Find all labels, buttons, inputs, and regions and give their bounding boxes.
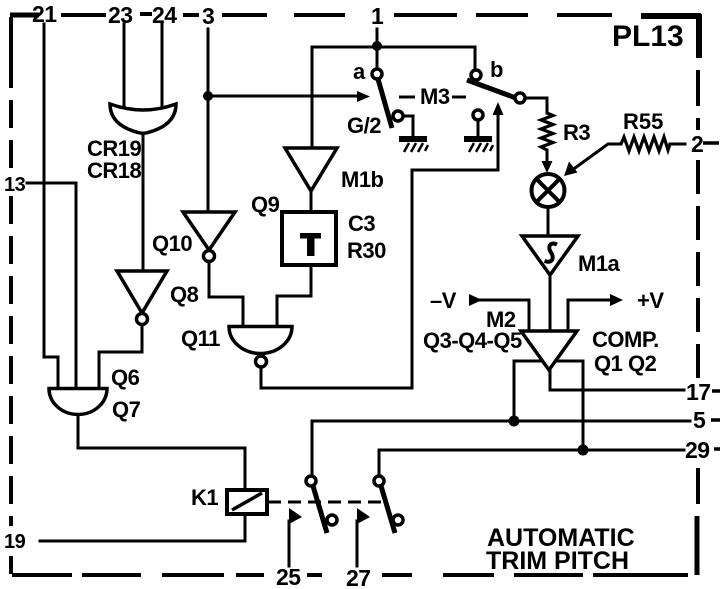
svg-text:Q8: Q8 <box>170 282 199 307</box>
svg-text:K1: K1 <box>191 485 218 510</box>
comparator M2 <box>521 331 577 370</box>
svg-text:Q9: Q9 <box>251 192 280 217</box>
wire node 3 to switch a arm <box>208 95 358 98</box>
svg-text:21: 21 <box>32 1 57 27</box>
or-gate CR19/CR18 <box>110 104 176 133</box>
svg-text:Q1 Q2: Q1 Q2 <box>594 351 657 376</box>
wire bus from node 1 horizontal <box>312 46 475 49</box>
wire M1a output to M2 input <box>549 275 552 331</box>
junction node 3 <box>203 91 213 101</box>
resistor R3 <box>541 113 553 150</box>
wire Q10 output to Q11 input <box>209 261 243 326</box>
svg-text:Q10: Q10 <box>152 231 192 256</box>
svg-text:M3: M3 <box>420 84 450 109</box>
wire net 5 riser to left switch <box>311 421 314 476</box>
junction node 1 <box>372 41 382 51</box>
wire C3/R30 box output to Q11 input <box>277 265 311 326</box>
svg-text:a: a <box>353 59 366 84</box>
svg-text:R30: R30 <box>347 238 386 263</box>
wire Q8 output to gate Q6 input <box>99 325 142 388</box>
amplifier M1b <box>285 148 337 191</box>
capacitor/resistor C3 R30 box <box>282 212 336 265</box>
arrow -V <box>469 294 482 306</box>
svg-text:1: 1 <box>371 3 384 29</box>
wire drop to net 29 <box>582 361 585 450</box>
wire hidden bus behind M2 <box>514 360 583 363</box>
wire M2 to +V supply <box>568 300 611 331</box>
svg-text:Q7: Q7 <box>112 397 141 422</box>
multiplier node <box>532 174 565 207</box>
svg-text:R55: R55 <box>623 109 663 134</box>
svg-text:Q11: Q11 <box>181 326 220 351</box>
wire node 1 to switch b pivot <box>474 47 477 70</box>
top border <box>10 13 39 18</box>
inverter Q10 <box>183 212 235 250</box>
wire terminal 13 to gate Q6 input <box>27 183 76 388</box>
svg-text:TRIM PITCH: TRIM PITCH <box>486 547 629 575</box>
stub terminal 29 <box>714 447 720 451</box>
arrow +V <box>610 294 623 306</box>
wire drop to net 5 <box>513 361 516 421</box>
wire net 29 riser to right switch <box>378 450 381 476</box>
wire M2 output to terminal 17 <box>550 370 684 390</box>
wire M1b output to C3/R30 box <box>310 191 313 212</box>
arrow R3 to multiplier <box>542 161 553 173</box>
svg-text:+V: +V <box>637 288 664 313</box>
stub terminal 17 <box>712 389 720 393</box>
flag terminal 25 <box>289 508 302 524</box>
wire Q11 output feedback to switch b contact <box>261 112 498 388</box>
junction net 29 <box>578 445 589 456</box>
integral symbol inside M1a <box>545 244 558 262</box>
svg-text:24: 24 <box>152 2 177 28</box>
svg-text:25: 25 <box>276 564 301 589</box>
svg-text:CR18: CR18 <box>87 158 142 183</box>
left border <box>9 17 13 88</box>
wire switch a contact to ground <box>403 116 413 136</box>
svg-text:5: 5 <box>693 407 706 433</box>
svg-text:2: 2 <box>691 131 703 157</box>
wire multiplier to M1a input <box>547 206 550 236</box>
wire terminal 3 to Q10 input <box>207 29 210 212</box>
svg-text:G/2: G/2 <box>347 113 381 138</box>
svg-text:PL13: PL13 <box>612 20 684 53</box>
stub terminal 5 <box>711 418 720 422</box>
wire terminal 24 to CR19 gate input <box>161 24 164 114</box>
and gate Q6/Q7 <box>49 389 107 415</box>
svg-text:17: 17 <box>686 379 711 405</box>
inverter Q8 <box>117 271 167 313</box>
wire R3 to multiplier <box>546 150 549 164</box>
wire terminal 27 riser <box>356 521 359 566</box>
arrow to switch a <box>357 91 370 102</box>
relay coil K1 <box>227 490 267 514</box>
ground at switch a <box>399 139 428 152</box>
svg-text:Q6: Q6 <box>111 365 140 390</box>
flag terminal 27 <box>357 508 370 524</box>
wire CR19/CR18 gate output to Q8 input <box>142 132 145 271</box>
switch b arm M3 <box>467 80 524 101</box>
arrow R55 to multiplier <box>564 162 578 177</box>
switch left (terminal 25) <box>313 486 327 533</box>
wire relay K1 to terminal 19 <box>40 514 245 541</box>
svg-text:M1b: M1b <box>341 167 384 192</box>
svg-text:R3: R3 <box>563 120 590 145</box>
wire Q7 output to relay K1 <box>78 415 245 490</box>
wire switch b contact to resistor R3 <box>525 98 547 113</box>
right border <box>696 70 700 130</box>
wire terminal 1 down to switch a pivot <box>376 29 379 70</box>
svg-text:M1a: M1a <box>578 251 621 276</box>
ground at switch b <box>464 139 493 152</box>
label T in box <box>300 233 321 256</box>
mechanical link M3 dashed <box>399 96 415 99</box>
contact below switch b <box>473 110 483 120</box>
svg-text:3: 3 <box>202 3 214 29</box>
junction net 5 <box>509 416 520 427</box>
switch a arm G/2 <box>378 79 392 128</box>
wire switch b lower contact to ground <box>477 120 480 136</box>
switch right (terminal 27) <box>381 486 395 533</box>
svg-text:19: 19 <box>4 531 26 553</box>
wire terminal 25 riser <box>288 521 291 566</box>
bottom border <box>12 573 264 577</box>
svg-text:23: 23 <box>108 2 133 28</box>
svg-text:COMP.: COMP. <box>592 327 659 352</box>
wire terminal 23 to CR19 gate input <box>123 24 126 114</box>
svg-text:b: b <box>490 57 503 82</box>
wire -V supply to M2 <box>480 300 529 331</box>
resistor R55 <box>621 137 670 151</box>
svg-text:29: 29 <box>685 437 710 463</box>
stub terminal 2 <box>703 141 719 145</box>
svg-text:27: 27 <box>346 565 371 589</box>
svg-text:Q3-Q4-Q5: Q3-Q4-Q5 <box>423 328 522 353</box>
integrator M1a <box>522 236 578 275</box>
svg-text:13: 13 <box>4 174 26 196</box>
mechanical link K1 dashed <box>268 501 388 504</box>
wire terminal 21 to gate Q6 input <box>44 24 58 388</box>
wire R55 to terminal 2 <box>670 143 685 146</box>
nand gate Q11 <box>229 327 292 354</box>
arrow up to switch b contact <box>493 102 504 115</box>
wire net 5 to terminal 5 <box>312 420 690 423</box>
wire net 29 to terminal 29 <box>379 449 684 452</box>
svg-text:C3: C3 <box>348 211 375 236</box>
wire R55 to multiplier diagonal <box>575 144 621 168</box>
wire node 1 to M1b input <box>311 47 314 148</box>
svg-text:–V: –V <box>430 288 457 313</box>
